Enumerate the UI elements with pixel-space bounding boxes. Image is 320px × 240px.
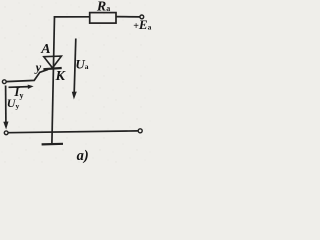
svg-text:у: у [34,60,42,74]
svg-text:а): а) [77,148,89,164]
svg-text:К: К [55,69,67,84]
svg-text:А: А [40,42,50,57]
